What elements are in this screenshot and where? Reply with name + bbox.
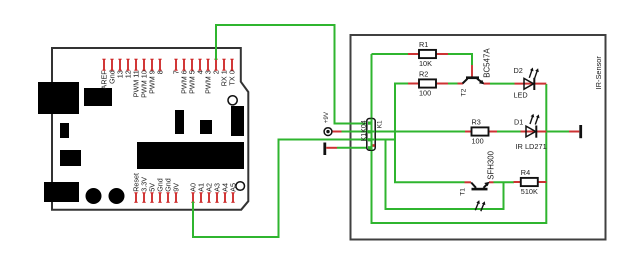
wire R2 to T2 collector [448,83,458,85]
Arduino USB connector [38,82,79,114]
wire through K1 body row3 [367,139,375,141]
Arduino top pin header ticks [102,59,233,70]
Arduino mounting hole top [228,96,237,105]
svg-text:T2: T2 [461,88,468,96]
resistor R3 leads [465,131,497,133]
wire R1 to T2 base [448,54,472,65]
wire Arduino pin 2 to K1 pin 1 [216,25,370,124]
wire R3 to D1 anode [497,131,521,133]
svg-text:SFH300: SFH300 [487,150,496,179]
wire K1 pin 3 to junction [375,139,396,141]
Arduino header block 2 [200,120,212,134]
resistor R2 leads [408,83,448,85]
LED D1 light arrows [530,114,534,124]
Arduino capacitor 1 [86,188,102,204]
svg-text:A5: A5 [228,183,237,192]
resistor R4 [521,178,538,186]
resistor R2 [419,79,436,87]
wire +9V rail through K1 pin 2 to D1 row [342,131,466,133]
svg-text:100: 100 [472,137,484,146]
svg-text:R1: R1 [419,40,428,49]
IR-Sensor module box [351,35,606,240]
svg-text:R3: R3 [472,118,481,127]
Arduino power jack [44,182,79,202]
wire D1 cathode to ground right [546,131,569,133]
Arduino bottom pin header ticks [134,193,234,203]
resistor R3 [472,127,489,135]
wire T2 emitter to D2 anode [490,83,515,85]
wire through K1 body vertical [371,119,373,151]
svg-text:510K: 510K [521,187,538,196]
resistor R4 leads [514,181,547,183]
LED D2 [524,78,534,90]
svg-text:D2: D2 [514,66,523,75]
Arduino small component [60,123,69,138]
Arduino IC block [84,88,112,106]
svg-text:IR LD271: IR LD271 [516,142,547,151]
Arduino header block 1 [175,110,184,134]
LED D1 lead [521,131,547,133]
svg-text:BC547A: BC547A [482,48,491,78]
wire Arduino pin A0 to K1 pin 3 [193,140,368,238]
LED D2 light arrows [529,68,533,78]
wire ground to K1 pin 4 [337,147,368,149]
LED D2 lead [515,83,547,85]
wire R1 net vertical and bottom rail [372,54,547,223]
phototransistor T1 [471,182,489,191]
transistor T2 [463,76,485,84]
svg-text:8: 8 [155,70,164,74]
transistor T2 emitter lead [484,83,491,85]
svg-text:K1K04: K1K04 [361,120,368,141]
Arduino top pin labels [99,70,236,98]
phototransistor T1 light arrows [475,200,480,210]
Arduino bottom pin labels [131,173,237,192]
phototransistor T1 left lead [465,181,472,183]
LED D1 [526,126,536,138]
resistor R1 [419,50,436,58]
transistor T2 base lead [471,65,473,77]
wire inner rail junction to T1 right lead [386,140,504,210]
svg-text:T1: T1 [460,188,467,196]
svg-text:+9V: +9V [323,111,330,123]
svg-text:100: 100 [419,89,431,98]
svg-text:LED: LED [514,91,528,100]
Arduino mounting hole bottom [236,182,245,191]
svg-text:R2: R2 [419,70,428,79]
svg-text:R4: R4 [521,168,530,177]
power +9V symbol [324,128,341,136]
connector K1 body [367,119,375,151]
svg-text:IR-Sensor: IR-Sensor [594,56,603,90]
Arduino capacitor 2 [109,188,125,204]
Arduino MCU chip [137,142,244,169]
svg-text:K1: K1 [377,120,384,128]
wire T1 right lead to R4 [494,181,515,183]
wire through K1 body row2 [367,131,375,133]
wire R1 row left [372,53,409,55]
wire R2 vertical to T1 left lead [395,84,465,183]
svg-text:10K: 10K [419,59,432,68]
svg-text:TX 0: TX 0 [227,70,236,85]
connector K1 pin 4 red lead [372,144,374,147]
svg-text:D1: D1 [514,117,523,126]
phototransistor T1 right lead [489,181,494,183]
connector K1 pins [368,122,371,150]
svg-text:9V: 9V [171,183,180,192]
Arduino board outline [52,48,248,210]
transistor T2 collector lead [458,83,464,85]
resistor R1 leads [408,53,448,55]
Arduino header block 3 [231,106,244,136]
Arduino regulator block [60,150,81,166]
ground symbol left [323,143,337,156]
ground symbol right [569,125,582,138]
